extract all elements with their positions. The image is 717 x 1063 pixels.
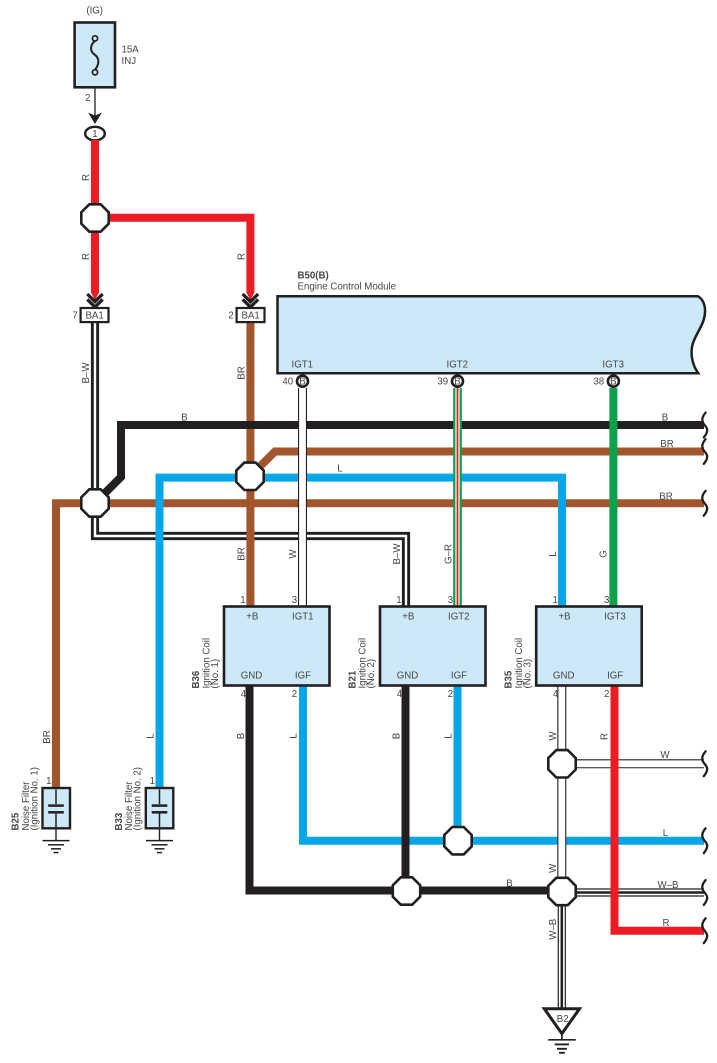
svg-text:B2: B2 (557, 1014, 569, 1025)
junction connector J6 (393, 877, 420, 904)
svg-text:IGT3: IGT3 (604, 612, 626, 623)
svg-text:GND: GND (241, 671, 263, 682)
svg-text:(No. 2): (No. 2) (366, 659, 377, 689)
wire W from coil No.3 GND through J4 to junction J7 (548, 686, 562, 892)
svg-text:B: B (506, 878, 512, 889)
svg-text:(No. 3): (No. 3) (522, 659, 533, 689)
svg-text:+B: +B (402, 612, 414, 623)
svg-text:39: 39 (437, 377, 448, 388)
svg-text:40: 40 (282, 377, 293, 388)
svg-text:(IG): (IG) (86, 6, 103, 17)
svg-text:B: B (392, 733, 403, 739)
svg-text:L: L (146, 733, 157, 739)
svg-text:W: W (288, 549, 299, 559)
ignition coil B21 No.2 (347, 595, 485, 700)
wire W from ECM pin 40 to coil No.1 IGT1 (288, 388, 303, 607)
svg-text:R: R (81, 174, 92, 181)
svg-text:L: L (663, 828, 669, 839)
svg-text:L: L (337, 464, 343, 475)
svg-text:1: 1 (46, 776, 51, 787)
fuse (IG) 15A INJ (75, 6, 140, 120)
svg-text:IGT2: IGT2 (448, 612, 470, 623)
arrow into BA1 pin 7 (87, 293, 102, 308)
ignition coil B36 No.1 (191, 595, 329, 700)
junction connector J5 (444, 827, 471, 854)
svg-text:3: 3 (292, 595, 297, 606)
wire L from coil No.1 IGF to right edge (289, 686, 708, 854)
ECM pin 39 IGT2 (437, 360, 468, 388)
svg-text:15A: 15A (122, 45, 140, 56)
wire R node1 to junction J1 (81, 140, 95, 218)
svg-text:(No. 1): (No. 1) (210, 659, 221, 689)
wire B from coil No.1 GND to junction J6 (236, 686, 562, 891)
svg-text:L: L (289, 733, 300, 739)
svg-text:38: 38 (593, 377, 604, 388)
svg-text:Engine Control Module: Engine Control Module (298, 281, 397, 292)
svg-text:G–R: G–R (443, 544, 454, 564)
svg-text:IGT2: IGT2 (447, 360, 469, 371)
wire G-R from ECM pin 39 to coil No.2 IGT2 (443, 388, 457, 607)
svg-text:BA1: BA1 (85, 311, 103, 322)
wire R J1 to connector BA1 pin 2 (95, 218, 250, 293)
svg-text:2: 2 (292, 689, 297, 700)
wire R J1 to connector BA1 pin 7 (81, 218, 95, 293)
svg-text:IGT1: IGT1 (292, 612, 314, 623)
svg-text:IGT3: IGT3 (602, 360, 624, 371)
svg-text:BR: BR (236, 366, 247, 379)
svg-text:2: 2 (85, 93, 90, 104)
svg-text:B: B (299, 376, 305, 387)
svg-text:B: B (662, 413, 668, 424)
svg-text:B: B (236, 733, 247, 739)
svg-text:W: W (548, 863, 559, 873)
svg-text:3: 3 (604, 595, 609, 606)
svg-text:INJ: INJ (122, 56, 137, 67)
junction connector J2 (81, 489, 108, 516)
ECM B50(B) Engine Control Module (278, 271, 706, 374)
svg-text:IGF: IGF (607, 671, 623, 682)
junction connector J3 (236, 463, 263, 490)
svg-text:R: R (600, 733, 611, 740)
svg-text:1: 1 (396, 595, 401, 606)
svg-text:1: 1 (240, 595, 245, 606)
svg-text:R: R (81, 253, 92, 260)
svg-text:GND: GND (553, 671, 575, 682)
svg-text:B: B (181, 413, 187, 424)
node 1 oval (85, 127, 105, 141)
svg-text:W: W (660, 750, 670, 761)
wire BR from BA1 pin2 to ignition coil No.1 +B (236, 322, 250, 607)
svg-text:R: R (236, 253, 247, 260)
svg-text:B: B (454, 376, 460, 387)
svg-text:L: L (548, 551, 559, 557)
svg-text:B–W: B–W (81, 362, 92, 384)
svg-text:7: 7 (72, 311, 77, 322)
svg-text:+B: +B (558, 612, 570, 623)
wire BR lower from noise filter B25 through J2 to right edge (42, 491, 707, 788)
svg-text:IGF: IGF (451, 671, 467, 682)
svg-text:4: 4 (241, 689, 247, 700)
connector BA1 pin 7 (72, 308, 108, 322)
ground B2 (544, 1009, 579, 1053)
svg-text:IGF: IGF (295, 671, 311, 682)
svg-text:2: 2 (604, 689, 609, 700)
svg-text:(Ignition No. 1): (Ignition No. 1) (29, 767, 40, 831)
svg-text:+B: +B (246, 612, 258, 623)
svg-text:IGT1: IGT1 (292, 360, 314, 371)
svg-text:BR: BR (42, 730, 53, 743)
svg-text:(Ignition No. 2): (Ignition No. 2) (133, 767, 144, 831)
svg-text:G: G (599, 550, 610, 558)
svg-text:W–B: W–B (658, 880, 679, 891)
svg-text:GND: GND (397, 671, 419, 682)
svg-text:1: 1 (150, 776, 155, 787)
junction connector J7 (548, 878, 575, 905)
ECM pin 40 IGT1 (282, 360, 313, 388)
wire B from coil No.2 GND to junction J6 (392, 686, 406, 892)
svg-text:W–B: W–B (548, 919, 559, 940)
junction connector J1 (R splice) (81, 204, 108, 231)
wire BR upper from junction J3 to right edge (250, 439, 707, 476)
svg-text:2: 2 (448, 689, 453, 700)
svg-text:BR: BR (660, 439, 673, 450)
svg-text:B–W: B–W (392, 543, 403, 565)
arrow into BA1 pin 2 (243, 293, 258, 308)
svg-text:R: R (663, 918, 670, 929)
svg-text:B50(B): B50(B) (298, 271, 329, 282)
svg-text:2: 2 (228, 311, 233, 322)
svg-text:BA1: BA1 (241, 311, 259, 322)
svg-text:1: 1 (553, 595, 558, 606)
wire W horizontal from junction J4 to right edge (562, 750, 707, 776)
svg-text:W: W (548, 731, 559, 741)
svg-text:B: B (610, 376, 616, 387)
ignition coil B35 No.3 (504, 595, 642, 700)
noise filter B25 Ignition No.1 (11, 767, 70, 853)
noise filter B33 Ignition No.2 (114, 767, 173, 853)
svg-text:L: L (444, 733, 455, 739)
wire B black junction J2 to right edge (95, 413, 707, 504)
svg-text:4: 4 (397, 689, 403, 700)
wire W-B horizontal from junction J7 to right edge (562, 880, 707, 905)
wire G from ECM pin 38 to coil No.3 IGT3 (599, 388, 614, 607)
svg-text:3: 3 (448, 595, 453, 606)
svg-text:4: 4 (553, 689, 559, 700)
wire R from coil No.3 IGF to right edge (600, 686, 708, 944)
arrow into node 1 (88, 113, 102, 124)
ECM pin 38 IGT3 (593, 360, 624, 388)
wire L from coil No.2 IGF to junction J5 (444, 686, 458, 842)
svg-text:BR: BR (659, 491, 672, 502)
wire W-B from junction J7 down to ground B2 (548, 892, 562, 1010)
wire L from noise filter B33 to ignition coil No.3 +B (146, 464, 563, 789)
connector BA1 pin 2 (228, 308, 264, 322)
svg-text:BR: BR (236, 547, 247, 560)
wire B-W from BA1 pin7 to ignition coil No.2 +B (81, 322, 406, 607)
junction connector J4 (548, 750, 575, 777)
svg-text:1: 1 (92, 129, 97, 140)
